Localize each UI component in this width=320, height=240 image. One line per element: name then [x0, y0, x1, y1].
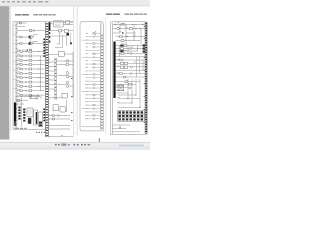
- lamp MC5: [130, 66, 132, 68]
- fuse F13: [20, 90, 22, 92]
- dense row junction dots: [26, 51, 40, 96]
- sensor B220: [93, 98, 94, 99]
- wire row L11: [17, 72, 45, 74]
- page 2 title model codes (smudge): [125, 14, 147, 15]
- page 2 harness bus bar (black): [113, 42, 115, 99]
- connector C21: [93, 33, 95, 35]
- stub wire row P2L2: [89, 36, 101, 38]
- connector C219: [93, 94, 95, 96]
- right rail pin marks: [145, 23, 147, 132]
- page 1 bottom frame right section: [45, 136, 73, 138]
- buzzer T2a (circle w legs): [117, 27, 120, 30]
- aux box AB1: [38, 112, 42, 127]
- stub wire row P2L25: [85, 114, 101, 116]
- left panel bottom long wire: [81, 126, 101, 128]
- wire row R3: [49, 70, 55, 72]
- rail J1 left tiny labels: [14, 25, 16, 89]
- stub wire row P2L20: [85, 97, 101, 99]
- TB1 dark cells: [118, 111, 143, 120]
- sensor dot T3: [122, 32, 123, 33]
- stub wire row P2L24: [85, 111, 101, 113]
- statusbar separator tick: [98, 138, 101, 142]
- sensor B1: [33, 30, 35, 32]
- lamp MC8: [130, 73, 132, 75]
- relay K9: [29, 72, 32, 74]
- wires to motors: [58, 76, 74, 87]
- fuse F11: [20, 81, 22, 83]
- relay K12: [29, 85, 32, 87]
- dashed wire row U5: [17, 49, 26, 51]
- aux box U4: [66, 21, 70, 24]
- statusbar body: [0, 143, 150, 150]
- middle vertical wires: [136, 57, 143, 77]
- stub wire row P2L13: [82, 73, 101, 75]
- vertical wire to cluster: [65, 100, 67, 112]
- fuse F14: [20, 94, 22, 96]
- connector C213: [93, 74, 95, 76]
- wire row R2: [49, 66, 55, 68]
- menubar divider: [0, 5, 150, 8]
- wire row L10: [17, 68, 45, 70]
- statusbar pager controls: [55, 144, 90, 146]
- wire row L15: [17, 90, 45, 92]
- vertical bus link: [40, 56, 42, 91]
- stub wire row P2L26: [85, 118, 101, 120]
- wire row P2M6: [116, 76, 146, 78]
- wire row P2M1: [116, 59, 146, 61]
- wire row P2M4: [116, 69, 146, 71]
- page 2 right panel top rows: [113, 24, 145, 44]
- page 1 top-right black bar connector X2: [49, 22, 51, 31]
- rail J1 pin ticks: [16, 24, 18, 125]
- sensor B211: [93, 67, 94, 68]
- top row right arrow: [142, 24, 144, 25]
- connector P1a: [66, 60, 69, 62]
- step wire U3: [32, 35, 39, 37]
- page 1 right edge: [73, 6, 76, 135]
- stub wire row P2L21: [85, 101, 101, 103]
- stub wire row P2L19: [85, 94, 101, 96]
- relay K10: [29, 77, 32, 79]
- lower vertical drop wires: [31, 97, 41, 101]
- harness area label smudges: [117, 82, 131, 103]
- left panel wire id labels: [85, 33, 88, 119]
- wire row L7: [17, 55, 45, 57]
- box MC3: [121, 66, 124, 69]
- box PF: [121, 53, 124, 55]
- wire row L9: [17, 64, 45, 66]
- bottom text smudge row: [15, 128, 27, 129]
- bus bar lighter tail: [14, 122, 16, 127]
- box T4a: [119, 36, 122, 38]
- upper-right connector boxes: [59, 29, 69, 32]
- right-edge dark blobs: [143, 44, 146, 52]
- menubar menu-item text dashes: [2, 1, 48, 2]
- dark box PA: [120, 45, 123, 47]
- page 2 right rail double line: [145, 22, 147, 134]
- box MC2: [124, 62, 127, 65]
- lamp PG: [130, 53, 132, 55]
- mid-right connector boxes: [66, 60, 69, 66]
- statusbar top border: [0, 141, 150, 144]
- motor M5: [66, 85, 69, 88]
- wire row L13: [17, 81, 45, 83]
- sidebar panel: [0, 6, 9, 139]
- relay K11: [29, 81, 32, 83]
- dense row tick labels: [18, 50, 20, 94]
- fuse F3: [20, 43, 22, 45]
- wire row P2M3: [116, 66, 146, 68]
- connector C216: [93, 84, 95, 86]
- dark block BT1: [28, 118, 31, 124]
- page 1 central terminal strip X1: [45, 22, 48, 137]
- fuse F1: [19, 22, 21, 24]
- wire row P2M5: [116, 73, 146, 75]
- ground symbol G2: [119, 125, 121, 129]
- connector C27: [93, 53, 95, 55]
- motor M2: [66, 75, 69, 78]
- fuse column cells FC2: [23, 109, 25, 122]
- wire row T5: [116, 40, 140, 42]
- wire row U1: [17, 22, 27, 24]
- dark box PE: [120, 50, 123, 52]
- page 2 right panel middle rows: [116, 60, 146, 77]
- junction box U2: [58, 52, 64, 56]
- step wire U4: [33, 41, 38, 43]
- wire row R5: [49, 79, 55, 81]
- connector C210: [93, 63, 95, 65]
- wires U1 U4 to edge: [50, 22, 73, 24]
- stub wire row P2L5: [92, 46, 101, 48]
- connector LB2: [129, 83, 131, 85]
- page 1 title model codes (smudge): [34, 14, 56, 15]
- control unit U1 rounded box: [53, 21, 63, 27]
- page 2 bottom wires: [113, 125, 140, 132]
- page 2 left edge: [76, 6, 79, 135]
- page 2 gap edge line: [105, 17, 108, 135]
- stub wire row P2L23: [82, 108, 101, 110]
- statusbar background: [0, 140, 150, 151]
- dark connector blob DB2: [70, 42, 72, 44]
- stub wire row P2L12: [89, 70, 101, 72]
- page 2 left panel inner rail line: [100, 22, 102, 130]
- sensor B25: [93, 46, 94, 47]
- harness junction dots: [128, 95, 141, 108]
- connector pair T1a: [121, 24, 123, 26]
- vertical feeder wire: [72, 52, 74, 98]
- relay K7: [29, 64, 32, 66]
- fuse F8: [20, 68, 22, 70]
- vertical links top: [120, 24, 141, 44]
- connector P1b: [66, 64, 69, 66]
- fuse F12: [20, 86, 22, 88]
- page 2 lower vertical harness wires: [116, 79, 140, 108]
- diode D2: [58, 115, 60, 117]
- contact pair K2b: [31, 36, 33, 38]
- page 1 schematic frame: [13, 22, 73, 130]
- U1 inner detail: [55, 23, 62, 26]
- right panel lower cluster: [49, 93, 71, 129]
- fuse F6: [20, 59, 22, 61]
- wire row P2B4: [116, 92, 128, 94]
- stub wire row P2L11: [92, 67, 101, 69]
- relay box K9: [60, 107, 65, 112]
- strip X1 left black connector squares: [43, 39, 45, 57]
- left panel dense rows: [17, 52, 45, 96]
- page 2 left panel frame (rounded): [80, 22, 103, 131]
- strip-to-rail link wires: [49, 62, 55, 89]
- battery bus bar: [14, 103, 16, 122]
- wire row L14: [17, 85, 45, 87]
- box T5a: [121, 40, 124, 42]
- box PC: [120, 48, 123, 50]
- relay K13: [29, 90, 32, 92]
- stub wire row P2L3: [82, 39, 101, 41]
- lower-left outline box: [30, 95, 38, 99]
- stub wire row P2L10: [89, 63, 101, 65]
- connector P9: [52, 118, 54, 120]
- sensor B226: [93, 118, 94, 119]
- wire row T3: [113, 32, 136, 34]
- stub wire row P2L17: [85, 87, 101, 89]
- connector LB1: [125, 81, 127, 83]
- lower wire rows: [49, 116, 71, 130]
- wire U2 to feeder: [64, 53, 73, 55]
- fuse F9: [20, 72, 22, 74]
- fuse F4: [20, 51, 22, 53]
- box PB: [124, 45, 127, 47]
- extra vertical wires right panel: [50, 33, 70, 48]
- stub wire row P2L1: [92, 32, 101, 34]
- rail X3 pin dots: [55, 59, 57, 98]
- small box 41: [17, 99, 20, 101]
- wires rail to connectors: [56, 61, 73, 65]
- strip X1 pin marks: [46, 23, 48, 136]
- contact pair K2a: [29, 36, 31, 38]
- statusbar lower sheen: [0, 147, 150, 151]
- fuse F5: [20, 55, 22, 57]
- right panel lower rows: [116, 82, 140, 94]
- box MC4: [124, 66, 127, 69]
- stub wire row P2L4: [89, 43, 101, 45]
- connector CB1: [59, 29, 62, 32]
- strip right tick stubs: [49, 59, 51, 127]
- wire row P2B3: [116, 87, 132, 89]
- dark connector blob DB1: [66, 33, 69, 36]
- page 2 right panel inner rail: [112, 23, 114, 135]
- contact pair K3b: [31, 42, 33, 44]
- stub wire row P2L9: [92, 60, 101, 62]
- box MC7: [120, 73, 123, 75]
- junction dot S1: [27, 49, 28, 50]
- page 2 terminal block table TB1 frame: [118, 111, 145, 122]
- right edge terminal dots: [71, 78, 72, 121]
- wire row U4: [17, 43, 45, 45]
- connector pair T1b: [123, 24, 125, 26]
- stray mark below page 1: [61, 135, 62, 136]
- stub wire row P2L15: [85, 80, 101, 82]
- wire row L16: [17, 94, 45, 96]
- left panel upper wires: [17, 23, 45, 50]
- sensor B217: [93, 87, 94, 88]
- sensor B223: [93, 108, 94, 109]
- right rail left ticks: [144, 26, 145, 123]
- wire row L6: [17, 51, 45, 53]
- box T2b: [129, 28, 132, 30]
- wire row R4: [49, 75, 55, 77]
- wire row U1b: [17, 25, 25, 27]
- sensor B22: [93, 36, 94, 37]
- contact pair K3a: [29, 42, 31, 44]
- sensor B28: [93, 57, 94, 58]
- fuse F7: [20, 64, 22, 66]
- relay K1: [29, 30, 32, 32]
- page 1 left edge: [9, 6, 12, 131]
- stub wire row P2L18: [82, 90, 101, 92]
- wire strip to U2: [49, 54, 59, 56]
- wire row L8: [17, 59, 45, 61]
- lower junction wires: [17, 97, 41, 128]
- stub wire row P2L16: [85, 84, 101, 86]
- strip X1 lower black connector squares: [43, 109, 45, 122]
- box MC9: [123, 76, 126, 78]
- lamp H1: [29, 49, 31, 51]
- fuse column cells FC1: [18, 107, 20, 120]
- relay K5: [29, 55, 32, 57]
- page 1 bottom terminal dots: [36, 132, 45, 133]
- stub wire row P2L14: [89, 77, 101, 79]
- stub wire row P2L6: [89, 49, 101, 51]
- wire row U2: [17, 30, 45, 32]
- X2 lower dark marks: [49, 32, 50, 43]
- relay box K8: [53, 105, 58, 111]
- sidebar right edge highlight: [8, 6, 11, 139]
- page 1 title ELECTRIC DIAGRAM (smudge): [15, 14, 29, 15]
- motor M1: [66, 72, 69, 75]
- box MC1: [121, 62, 124, 65]
- connector C225: [93, 115, 95, 117]
- wire row R1: [49, 61, 55, 63]
- page 2 right panel packed rows y44-57: [116, 46, 146, 57]
- wire row T2: [113, 28, 145, 30]
- left panel rail terminal dots: [101, 35, 102, 129]
- page 2 title ELECTRIC DIAGRAM (smudge): [106, 14, 120, 15]
- stub wire row P2L22: [85, 104, 101, 106]
- right panel top label smudges: [117, 22, 136, 50]
- relay box RB1 outline: [27, 108, 33, 117]
- AB1 dark bottom marks: [39, 122, 42, 127]
- SB1 dark stripe: [36, 112, 37, 124]
- vertical link U3-U4: [29, 37, 31, 44]
- connector P8: [52, 115, 54, 117]
- upper-right link wires: [50, 31, 73, 45]
- right panel secondary rail X3: [55, 58, 56, 101]
- junction box U5: [62, 93, 67, 98]
- wire row P2B1: [116, 81, 140, 83]
- lower box with X: [118, 85, 123, 91]
- page 1 left terminal rail J1: [16, 22, 17, 128]
- connector C222: [93, 104, 95, 106]
- wire row T4: [116, 36, 146, 38]
- starter box SB1: [34, 110, 38, 125]
- sensor B214: [93, 77, 94, 78]
- wire row RC0: [49, 97, 63, 99]
- relay K6: [29, 59, 32, 61]
- plus mark T1: [115, 23, 117, 25]
- fuse F10: [20, 77, 22, 79]
- page 1 right panel upper features: [49, 52, 74, 98]
- wire row P2M2: [116, 62, 146, 64]
- top rows junction dots: [127, 24, 141, 37]
- lamp PD: [130, 48, 132, 50]
- connector C24: [93, 43, 95, 45]
- wire row U3: [17, 36, 30, 38]
- wire row T1: [113, 23, 145, 25]
- wire row R6: [49, 84, 55, 86]
- stub wire row P2L7: [92, 53, 101, 55]
- page 2 left panel stub rows: [82, 33, 101, 119]
- relay K14: [29, 94, 32, 96]
- box MC6: [120, 59, 123, 61]
- fuse F2: [20, 36, 22, 38]
- RB1 inner marks: [28, 110, 32, 114]
- relay K4: [29, 51, 32, 53]
- left panel upper tiny marks: [95, 31, 96, 35]
- wire row L12: [17, 77, 45, 79]
- page 2 right panel frame (rounded): [110, 22, 147, 135]
- wire row P2B2: [116, 83, 136, 85]
- menubar background: [0, 0, 150, 6]
- motor M4: [66, 81, 69, 84]
- connector CB2: [64, 29, 68, 32]
- relay K8: [29, 68, 32, 70]
- stub wire row P2L8: [82, 56, 101, 58]
- right panel middle label smudges: [117, 59, 136, 73]
- wire row R7: [49, 88, 55, 90]
- statusbar blue highlight segment: [119, 145, 144, 147]
